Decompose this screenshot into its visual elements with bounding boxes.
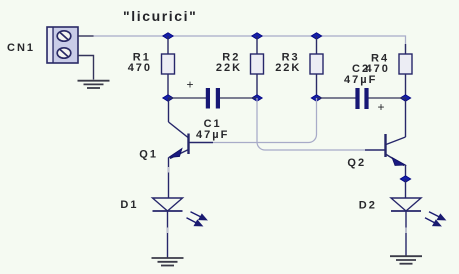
svg-text:+: + <box>378 100 385 114</box>
resistor R2 <box>251 36 264 98</box>
node junction R4 bottom <box>400 95 411 102</box>
capacitor C2 <box>355 88 384 114</box>
svg-text:D1: D1 <box>120 199 138 211</box>
wire cross-couple R2 to Q2 base <box>257 98 365 150</box>
D2 light arrows <box>425 212 445 226</box>
wire C2 right <box>369 97 406 99</box>
label Q2 <box>347 157 366 169</box>
wire gap D2 cathode net <box>405 228 407 234</box>
label D1 <box>120 199 138 211</box>
label R3 value <box>275 52 301 75</box>
wire C2 left <box>317 97 356 99</box>
label R1 value <box>128 52 152 75</box>
node junction R3 bottom <box>311 95 322 102</box>
wire top rail <box>93 36 406 50</box>
capacitor C1 <box>187 78 221 109</box>
D1 light arrows <box>187 212 207 226</box>
wire gap Q1 emitter net <box>168 167 170 173</box>
wire C1 right <box>220 97 257 99</box>
svg-text:Q1: Q1 <box>139 148 158 160</box>
svg-text:D2: D2 <box>359 200 377 212</box>
label R4 value <box>366 53 390 76</box>
wire gap D1 cathode net <box>167 228 169 234</box>
transistor Q2 <box>365 98 406 179</box>
svg-text:47µF: 47µF <box>344 74 377 86</box>
CN1 pin 1 wire <box>78 35 94 37</box>
label C1 value <box>196 118 229 141</box>
resistor R3 <box>310 36 323 98</box>
node junction R1 top <box>163 33 174 40</box>
label CN1 <box>7 42 35 54</box>
svg-text:22K: 22K <box>275 62 301 74</box>
label C2 value <box>344 63 377 86</box>
wire Q2 emitter to D2 <box>405 179 407 198</box>
label D2 <box>359 200 377 212</box>
svg-text:470: 470 <box>128 62 152 74</box>
node junction Q2 emitter <box>400 176 411 183</box>
ground (D2) <box>390 256 422 264</box>
svg-text:47µF: 47µF <box>196 129 229 141</box>
title "licurici" <box>123 8 197 24</box>
svg-text:"licurici": "licurici" <box>123 8 197 24</box>
ground (D1) <box>152 258 184 266</box>
node junction R3 top <box>311 33 322 40</box>
node junction R2 bottom <box>252 95 263 102</box>
LED D2 <box>391 198 421 256</box>
label Q1 <box>139 148 158 160</box>
svg-text:22K: 22K <box>216 62 242 74</box>
wire C1 left <box>168 97 206 99</box>
svg-text:Q2: Q2 <box>347 157 366 169</box>
ground (CN1) <box>78 81 110 88</box>
svg-text:CN1: CN1 <box>7 42 35 54</box>
CN1 pin 2 wire <box>78 56 94 80</box>
node junction R2 top <box>252 33 263 40</box>
label R2 value <box>216 52 242 75</box>
resistor R1 <box>162 36 175 98</box>
wire cross-couple R3 to Q1 base <box>213 98 317 143</box>
LED D1 <box>153 198 183 258</box>
svg-text:+: + <box>187 78 194 92</box>
resistor R4 <box>399 44 412 98</box>
connector CN1 <box>47 27 78 63</box>
node junction C1 left <box>163 95 174 102</box>
transistor Q1 <box>169 98 214 198</box>
